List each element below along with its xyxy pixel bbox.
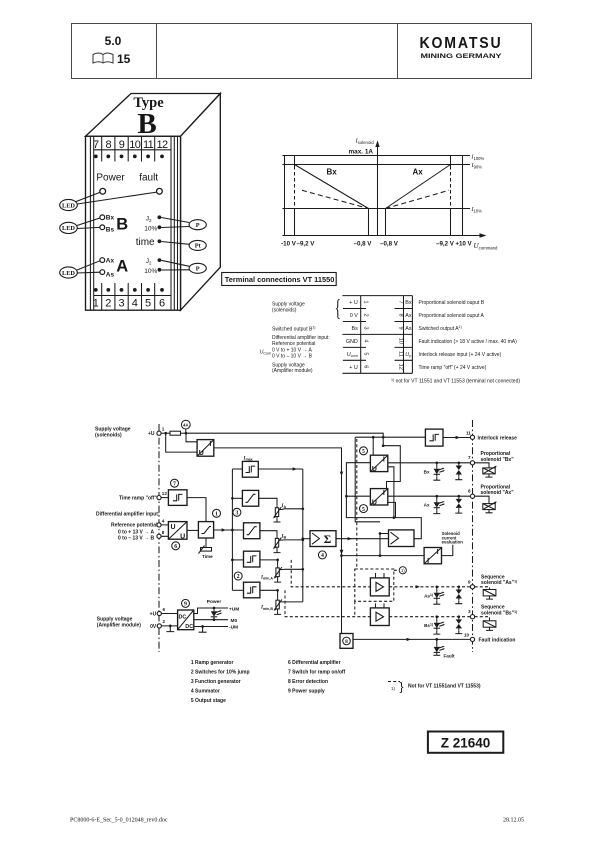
svg-text:3: 3 (468, 609, 471, 614)
svg-text:Z 21640: Z 21640 (441, 736, 491, 751)
svg-text:LED: LED (62, 225, 75, 232)
legend column 1 (191, 660, 250, 704)
svg-text:9 Power supply: 9 Power supply (288, 688, 325, 694)
dashed 10% jump line A (291, 560, 370, 587)
power LED hole (100, 188, 106, 194)
svg-text:3 Function generator: 3 Function generator (191, 679, 241, 685)
svg-text:9: 9 (119, 139, 125, 151)
svg-text:1) not for VT 11551 and VT 115: 1) not for VT 11551 and VT 11553 (termin… (391, 378, 520, 385)
svg-text:LED: LED (62, 270, 75, 277)
wires terminals to DC/DC (161, 614, 177, 626)
wire Imax to summing bus (258, 467, 303, 470)
svg-text:(solenoids): (solenoids) (272, 308, 297, 314)
-10V vertical (284, 156, 286, 236)
wire summator to amplifier (336, 537, 389, 540)
node fgen bus box2 (231, 497, 234, 500)
svg-text:7: 7 (468, 455, 471, 460)
switch amplifier As (370, 573, 389, 596)
ramp generator box (198, 522, 213, 538)
power LED (211, 607, 222, 621)
book icon (93, 53, 113, 63)
drawing number box Z 21640 (428, 732, 503, 753)
svg-text:6: 6 (174, 544, 177, 550)
time potentiometer (199, 538, 214, 559)
dashed 10% characteristic right (386, 190, 450, 208)
wire terminal 12 to ramp switch (161, 497, 168, 499)
svg-text:I: I (383, 457, 385, 464)
svg-text:10: 10 (398, 338, 404, 344)
svg-text:(solenoids): (solenoids) (95, 433, 122, 439)
interlock schmitt trigger box (425, 429, 443, 446)
potentiometer IminA (274, 566, 282, 579)
wire bus to box2 (232, 497, 242, 499)
svg-text:5: 5 (145, 298, 151, 310)
svg-text:1: 1 (162, 427, 165, 432)
function generator box 2 (linear A) (242, 490, 258, 506)
terminal connections title box (222, 273, 337, 286)
proportional solenoid Ax (483, 501, 497, 512)
top terminal screws (94, 155, 164, 159)
left row labels (260, 302, 330, 374)
svg-text:5: 5 (362, 507, 365, 513)
node supply to output stage B (372, 436, 375, 439)
node LED Ax (435, 495, 438, 498)
svg-text:Imax: Imax (243, 456, 253, 461)
svg-text:U: U (372, 466, 377, 473)
svg-text:I: I (427, 558, 429, 565)
svg-text:4 Summator: 4 Summator (191, 688, 220, 694)
svg-text:2 Switches for 10% jump: 2 Switches for 10% jump (191, 669, 250, 675)
wire to solenoid Bx (475, 463, 489, 468)
arrow on As wire (416, 585, 420, 588)
As LED hole (100, 270, 105, 275)
ground pot IminB (274, 611, 281, 614)
top terminal strip numbers 7-12 (93, 136, 171, 161)
node diode As (457, 585, 460, 588)
branch down to U/I converter current input (186, 433, 197, 442)
node supply loop (382, 444, 385, 447)
svg-text:15: 15 (117, 52, 131, 66)
suppressor diode A (455, 496, 462, 513)
Imax limiter box (242, 461, 258, 477)
svg-text:8: 8 (106, 139, 112, 151)
supply loop to output stage A (383, 446, 400, 489)
node diode B (457, 461, 460, 464)
10% jump switch box A (244, 551, 260, 567)
svg-text:Reference potential: Reference potential (272, 341, 315, 347)
wire error detection to terminal 10 (353, 638, 470, 641)
svg-text:KOMATSU: KOMATSU (420, 35, 503, 52)
potentiometer IB (273, 536, 281, 549)
footnote legend (388, 680, 481, 694)
wire box3 to pot IB (260, 531, 277, 537)
header frame (72, 24, 532, 79)
node amp top input (379, 532, 382, 535)
svg-text:3: 3 (118, 298, 124, 310)
characteristic curve graph (281, 138, 498, 251)
svg-text:5: 5 (363, 352, 369, 355)
svg-text:Power: Power (96, 173, 125, 184)
svg-text:Bx: Bx (327, 168, 338, 177)
output stage B wire to terminal 7 (388, 462, 471, 464)
svg-text:I90%: I90% (471, 163, 483, 169)
wire fuse to junction (181, 432, 187, 434)
node IA on bus (301, 507, 304, 510)
svg-text:solenoid "Bs"1): solenoid "Bs"1) (481, 610, 517, 617)
svg-text:7: 7 (93, 139, 99, 151)
node LED Bs (435, 615, 438, 618)
terminal table grid (342, 296, 412, 374)
svg-text:(Amplifier module): (Amplifier module) (272, 368, 313, 374)
I 100% line (282, 155, 470, 157)
wire riser to output stage A (346, 495, 370, 497)
circled 2 (234, 572, 242, 580)
svg-text:9: 9 (184, 602, 187, 608)
sequence solenoid As label (481, 574, 517, 586)
svg-text:Fault indication: Fault indication (479, 638, 516, 644)
circled 7 (171, 479, 179, 487)
svg-text:4: 4 (162, 518, 165, 523)
wire bus to box5 (232, 589, 243, 591)
interlock disable dashed line (356, 439, 358, 569)
svg-text:1): 1) (391, 686, 395, 691)
diode As (455, 587, 462, 604)
I 90% line (282, 164, 470, 166)
svg-text:A: A (116, 258, 128, 276)
wire terminal1 to fuse (161, 432, 170, 434)
svg-text:(Amplifier module): (Amplifier module) (97, 623, 142, 629)
LED callout oval 1 (60, 192, 157, 210)
svg-text:Fault indication (> 18 V activ: Fault indication (> 18 V active / max. 4… (419, 339, 518, 345)
terminal 10 (464, 632, 475, 641)
bottom terminal screws (94, 283, 171, 296)
svg-text:–9,2 V: –9,2 V (297, 241, 316, 248)
output amplifier box (389, 530, 415, 547)
supply voltage (solenoids) label (95, 427, 131, 439)
terminal 3 (468, 609, 475, 619)
svg-text:B: B (137, 108, 156, 140)
terminal 12 (157, 491, 167, 500)
svg-text:11: 11 (398, 351, 404, 357)
module boundary right (dash-dot) (472, 420, 474, 652)
svg-text:Bx: Bx (106, 215, 115, 222)
+UM output wire (194, 608, 228, 614)
svg-text:Bs1): Bs1) (424, 623, 433, 629)
svg-text:UCom: UCom (260, 350, 272, 356)
circled 3 (233, 508, 241, 516)
svg-text:Ax: Ax (413, 168, 424, 177)
svg-text:+10 V: +10 V (455, 241, 472, 248)
svg-text:2: 2 (105, 298, 111, 310)
M0 output wire (194, 619, 228, 621)
circled 4 (318, 551, 326, 559)
svg-text:1: 1 (363, 301, 369, 304)
feedback wire into amplifier top input (380, 534, 389, 556)
module side rails (90, 136, 177, 310)
svg-text:B: B (116, 216, 128, 234)
svg-text:DC: DC (179, 614, 187, 620)
wiper IA to summing bus (279, 508, 303, 511)
svg-text:U: U (372, 499, 377, 506)
+10V vertical (462, 156, 464, 236)
svg-text:Interlock release: Interlock release (478, 436, 518, 442)
svg-text:Time: Time (202, 554, 213, 559)
svg-text:Proportional solenoid ouput A: Proportional solenoid ouput A (419, 313, 485, 319)
wires terminals to U/U amplifier (161, 525, 168, 536)
solenoid current evaluation label (442, 531, 464, 544)
svg-text:12: 12 (162, 491, 168, 496)
svg-text:+ U: + U (349, 365, 358, 371)
wiper IminB to bus (280, 601, 303, 603)
svg-text:5.0: 5.0 (105, 34, 122, 48)
P callout oval A (161, 260, 206, 273)
ground at -UM (199, 625, 207, 632)
svg-text:P: P (196, 266, 200, 273)
LED Bx indicator (424, 463, 445, 480)
dashed output wire to terminal 3 (389, 616, 470, 618)
wire supply into output stage B (372, 437, 374, 455)
svg-text:Ucommand: Ucommand (474, 242, 499, 251)
terminal 8 right (468, 488, 475, 498)
svg-text:As: As (106, 272, 115, 279)
svg-text:Pt: Pt (195, 243, 202, 250)
svg-text:3: 3 (235, 511, 238, 517)
terminal 8 left (157, 530, 165, 539)
svg-text:Bs: Bs (106, 227, 115, 234)
wire box2 to pot IA (259, 498, 277, 506)
ramp on/off switch box (168, 490, 187, 506)
svg-text:0 V: 0 V (350, 313, 358, 319)
svg-text:Ax: Ax (106, 258, 115, 265)
node diode Bs (457, 615, 460, 618)
svg-text:8: 8 (345, 639, 348, 645)
svg-text:Interlock release input (+ 24: Interlock release input (+ 24 V active) (419, 352, 502, 358)
terminal 4 (157, 518, 165, 527)
svg-text:0 V to – 10 V → B: 0 V to – 10 V → B (272, 353, 313, 359)
terminal 9 (468, 579, 475, 589)
dashed 10% jump line B (285, 590, 370, 616)
Pt callout oval (161, 240, 206, 250)
terminal 1 (157, 427, 165, 436)
dashed wire to solenoid As (475, 587, 490, 590)
wire rail branch to interlock trigger (355, 436, 425, 438)
svg-text:8: 8 (162, 530, 165, 535)
footnote bubble 1) (394, 567, 407, 574)
output stage A wire to terminal 8 (388, 495, 471, 497)
svg-text:5 Output stage: 5 Output stage (191, 698, 226, 704)
dashed output wire to terminal 9 (389, 586, 470, 588)
P callout oval B (161, 218, 206, 230)
terminal 11 (466, 430, 475, 439)
wire ramp generator output (214, 528, 244, 531)
branch down to U/I converter voltage input (166, 433, 197, 452)
proportional solenoid Ax label (481, 484, 515, 496)
svg-text:12: 12 (398, 364, 404, 370)
node fgen bus box4 (231, 559, 234, 562)
node at +U input (164, 432, 167, 435)
summator box (310, 531, 336, 547)
KOMATSU logo (420, 35, 503, 60)
ground pot IminA (274, 579, 281, 582)
node feedback B bottom (393, 516, 396, 519)
dashed enable box around switch amp As (355, 569, 394, 601)
node rail crossing (382, 436, 385, 439)
summing bus vertical (302, 469, 304, 602)
svg-text:Terminal connections VT 11550: Terminal connections VT 11550 (225, 275, 335, 284)
LED Ax indicator (424, 496, 445, 513)
wire box4 to pot IminA (260, 560, 278, 566)
svg-text:8: 8 (398, 313, 404, 316)
sequence solenoid As (483, 590, 496, 600)
svg-text:11: 11 (466, 430, 471, 435)
svg-text:1 Ramp generator: 1 Ramp generator (191, 660, 234, 666)
wire A: monitor output to evaluation bus (214, 448, 342, 634)
y axis (375, 141, 379, 236)
svg-text:M0: M0 (231, 618, 238, 624)
circled 9 (182, 599, 190, 607)
amplifier module 3D housing (86, 94, 221, 311)
svg-text:10: 10 (464, 632, 470, 637)
input range labels (118, 530, 155, 542)
-0.8V vertical (368, 209, 370, 236)
legend column 2 (288, 660, 346, 695)
left pin values (346, 300, 358, 371)
node wire A to I/I input (340, 554, 343, 557)
node riser to stage A (345, 495, 348, 498)
proportional solenoid Bx label (481, 451, 515, 463)
wire I/I to evaluation pointer (442, 545, 453, 556)
left pin numbers 1-6 (rotated) (363, 301, 369, 369)
sequence solenoid Bs label (481, 605, 517, 617)
bottom terminal strip numbers 1-6 (93, 296, 165, 311)
svg-text:12: 12 (156, 139, 168, 151)
potentiometer IA (273, 506, 281, 519)
wire switch to ramp generator (187, 498, 206, 522)
svg-text:1: 1 (93, 298, 99, 310)
svg-text:+ U: + U (349, 300, 358, 306)
svg-text:0 to – 13 V → B: 0 to – 13 V → B (118, 536, 155, 542)
Bx LED hole (100, 215, 105, 220)
terminal 6 (157, 607, 165, 616)
svg-text:P: P (196, 222, 200, 229)
svg-text:Imin,A: Imin,A (260, 575, 273, 580)
wiper IminA to bus (280, 568, 303, 570)
svg-text:{: { (335, 296, 341, 322)
svg-text:10: 10 (129, 139, 141, 151)
svg-text:As: As (405, 326, 412, 332)
ground pot IB (274, 549, 281, 552)
svg-text:8 Error detection: 8 Error detection (288, 679, 328, 685)
node IminA on bus (301, 568, 304, 571)
svg-text:Switched output A1): Switched output A1) (419, 325, 462, 332)
output stage B (U/I power) (370, 455, 387, 473)
svg-text:8: 8 (468, 488, 471, 493)
right pin values (405, 300, 412, 358)
Bx characteristic (295, 165, 369, 209)
right pin numbers 7-12 (rotated) (398, 301, 404, 370)
wire schmitt to terminal 11 (443, 436, 470, 439)
svg-text:Time ramp "off" (+ 24 V active: Time ramp "off" (+ 24 V active) (419, 365, 487, 371)
LED As indicator (424, 587, 445, 604)
LED Fault indicator (433, 639, 455, 658)
svg-text:Up: Up (405, 352, 411, 358)
10% jump switch box B (244, 582, 260, 598)
node IB on bus (301, 539, 304, 542)
suppressor diode B (455, 463, 462, 480)
svg-text:IB: IB (281, 534, 287, 539)
wire bus to summator (303, 538, 310, 540)
svg-text:As1): As1) (424, 593, 433, 599)
svg-text:Isolenoid: Isolenoid (355, 138, 375, 146)
ground at 0V input (166, 625, 174, 632)
svg-text:Imin,B: Imin,B (260, 606, 273, 611)
+U supply rail wire (186, 433, 383, 446)
proportional solenoid Bx (483, 466, 497, 477)
svg-text:LED: LED (62, 202, 75, 209)
svg-text:4: 4 (132, 298, 138, 310)
svg-text:Switched output B1): Switched output B1) (272, 326, 316, 333)
LED callout oval 3 (60, 261, 100, 278)
svg-text:U: U (199, 450, 204, 457)
svg-text:–0,8 V: –0,8 V (354, 241, 373, 248)
svg-text:6: 6 (159, 298, 165, 310)
wire U/U to ramp generator (187, 529, 198, 531)
I/I current sense converter (424, 548, 441, 566)
svg-text:MINING GERMANY: MINING GERMANY (421, 53, 503, 60)
fuse F1 (170, 431, 181, 435)
svg-text:Not for VT 11551and VT 11553): Not for VT 11551and VT 11553) (408, 684, 481, 690)
wiper IB to summing bus (279, 539, 303, 541)
svg-text:Power: Power (207, 599, 222, 605)
node box5 out (276, 589, 279, 592)
dashed link to amp Bs (354, 601, 356, 616)
svg-text:Bx: Bx (405, 300, 412, 306)
svg-text:2: 2 (363, 313, 369, 316)
svg-text:Bs: Bs (352, 326, 359, 332)
svg-text:4A: 4A (183, 422, 188, 427)
svg-text:Bx: Bx (424, 469, 430, 474)
Bs LED hole (100, 225, 105, 230)
svg-text:I: I (209, 441, 211, 448)
svg-text:2: 2 (237, 574, 240, 580)
svg-text:6: 6 (363, 365, 369, 368)
svg-text:GND: GND (346, 339, 358, 345)
node LED fault (435, 638, 438, 641)
svg-text:6: 6 (163, 607, 166, 612)
I 10% line (282, 208, 470, 210)
svg-text:–9,2 V: –9,2 V (436, 241, 455, 248)
svg-text:PC8000-6-E_Sec_5-0_012048_rev0: PC8000-6-E_Sec_5-0_012048_rev0.doc (70, 818, 168, 824)
svg-text:fault: fault (139, 173, 158, 184)
svg-text:solenoid "Ax": solenoid "Ax" (481, 490, 515, 496)
circled 1 (213, 509, 221, 517)
svg-text:7: 7 (173, 481, 176, 487)
svg-text:IA: IA (281, 504, 287, 509)
x axis (282, 233, 486, 238)
node diode A (457, 495, 460, 498)
node box4 out (276, 559, 279, 562)
wire bus to box4 (232, 559, 243, 561)
arrow on wire A lower (340, 550, 344, 555)
LED Bs indicator (424, 617, 445, 634)
svg-text:Ax: Ax (405, 313, 412, 319)
svg-text:9: 9 (398, 326, 404, 329)
U/U differential amplifier box (168, 522, 187, 541)
terminal 7 (468, 455, 475, 465)
left loop wire from supply rail (355, 437, 380, 522)
right descriptions (419, 300, 518, 371)
node summing bus to summator (301, 537, 304, 540)
